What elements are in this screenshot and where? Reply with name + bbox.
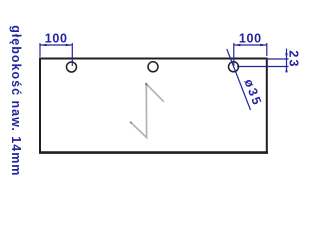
panel outline <box>40 59 267 153</box>
dim right 100 extension line at panel right edge <box>266 43 268 56</box>
svg-text:ø35: ø35 <box>241 77 264 109</box>
svg-text:100: 100 <box>239 32 262 46</box>
svg-text:100: 100 <box>45 32 68 46</box>
dim right 100 dimension line <box>234 44 267 46</box>
dim left 100 arrow left <box>40 44 46 47</box>
dim right 100 arrow right <box>260 44 266 47</box>
hole right <box>229 62 239 72</box>
panel bottom edge (thicker) <box>39 151 268 154</box>
dim 23 arrow lower <box>285 67 287 73</box>
dim left 100 dimension line <box>40 44 72 46</box>
svg-text:głębokość naw. 14mm: głębokość naw. 14mm <box>9 25 23 176</box>
dim 23 arrow upper <box>285 53 287 59</box>
dim right 100 arrow left <box>234 44 240 47</box>
break mark zigzag <box>131 84 164 138</box>
hole middle <box>148 62 158 72</box>
dim 23 dimension line <box>286 49 288 73</box>
dim left 100 arrow right <box>66 44 72 47</box>
svg-text:23: 23 <box>287 50 301 68</box>
dim 23 lower extension line <box>237 66 289 68</box>
dim left 100 extension line at panel left edge <box>39 43 41 57</box>
dim right 100 extension line at right hole <box>233 43 235 66</box>
dim left 100 extension line at left hole <box>71 43 73 66</box>
dim 23 upper extension line <box>266 58 289 60</box>
hole left <box>67 62 77 72</box>
break mark dot end <box>130 121 132 123</box>
break mark dot top <box>145 83 147 85</box>
leader line o35 <box>227 49 251 110</box>
